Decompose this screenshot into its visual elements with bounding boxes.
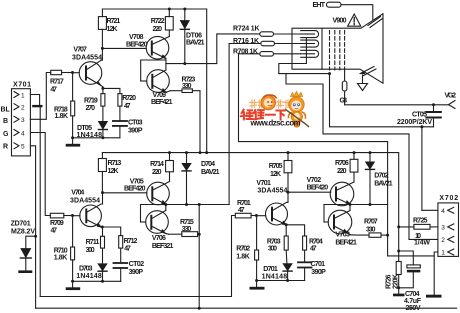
svg-text:3: 3 — [441, 225, 445, 232]
grid dash G1 — [329, 31, 331, 71]
svg-text:BL: BL — [1, 107, 11, 114]
top rail wire — [102, 9, 206, 153]
resistor R705 — [269, 153, 292, 193]
diode DT06 — [180, 9, 204, 64]
node R726 bottom — [397, 286, 400, 289]
svg-text:BEF321: BEF321 — [152, 243, 174, 250]
svg-text:C701: C701 — [311, 261, 326, 268]
heater wire a route — [330, 74, 434, 127]
svg-text:ZD701: ZD701 — [11, 221, 31, 228]
svg-text:V709: V709 — [153, 92, 167, 99]
svg-text:3DA4554: 3DA4554 — [72, 55, 102, 62]
cathode K2 — [301, 40, 319, 47]
node CT05 tap — [432, 103, 435, 106]
node DT06 top rail — [183, 8, 186, 11]
ground top amp — [66, 138, 81, 147]
svg-text:1.8K: 1.8K — [54, 255, 68, 262]
ground rail bottom — [36, 307, 457, 309]
resistor R717 — [50, 70, 64, 93]
svg-text:R726: R726 — [386, 274, 393, 289]
svg-text:220: 220 — [153, 26, 163, 33]
node output R715 line — [198, 203, 201, 206]
X701 pin 1 — [14, 92, 25, 100]
svg-text:CT02: CT02 — [129, 261, 145, 268]
cathode K1 — [301, 31, 319, 38]
wire emitter branch to R704 — [286, 225, 304, 236]
wire bottom node top amp — [73, 137, 120, 139]
node R726 top — [397, 250, 400, 253]
transistor V706 — [141, 205, 174, 250]
svg-text:V701: V701 — [256, 180, 271, 187]
svg-text:CT05: CT05 — [412, 112, 427, 119]
svg-text:R709: R709 — [50, 220, 64, 227]
svg-text:R717: R717 — [50, 79, 64, 86]
svg-text:D702: D702 — [374, 172, 389, 179]
svg-text:BAV21: BAV21 — [374, 180, 393, 187]
wire R708 to lower-right output — [239, 54, 388, 256]
svg-text:R713: R713 — [108, 160, 122, 167]
svg-text:4: 4 — [441, 208, 445, 215]
wire R716 to lower-left output — [228, 44, 230, 205]
transistor V707 — [72, 46, 103, 87]
resistor R711 — [86, 227, 105, 264]
node D703 bottom — [101, 280, 104, 283]
output wire top amp — [166, 34, 260, 64]
wire emitter branch to R712 — [102, 227, 120, 236]
ground lower-right amp — [250, 281, 265, 290]
svg-text:R710: R710 — [54, 248, 68, 255]
diode D704 — [182, 153, 220, 205]
node output D702 — [369, 203, 372, 206]
wire pin1 branch — [388, 255, 435, 257]
svg-text:V703: V703 — [335, 231, 350, 238]
ground bar at X701 — [32, 105, 42, 107]
capacitor CT03 — [113, 120, 143, 138]
wire pin2 — [409, 238, 438, 240]
svg-text:1.8K: 1.8K — [236, 253, 250, 260]
svg-text:47: 47 — [50, 87, 57, 94]
svg-text:BAV21: BAV21 — [186, 39, 205, 46]
svg-text:BAV21: BAV21 — [201, 169, 220, 176]
resistor R706 — [335, 153, 358, 182]
resistor R719 — [84, 88, 105, 121]
svg-text:BEF420: BEF420 — [307, 184, 329, 191]
wire pin5 R input down — [30, 146, 35, 308]
svg-text:R719: R719 — [84, 97, 98, 104]
node output junction V705 V706 — [164, 203, 167, 206]
capacitor CT05 — [397, 105, 441, 127]
svg-text:3DA4554: 3DA4554 — [70, 197, 100, 204]
warning triangle V900 — [333, 14, 361, 26]
resistor R725 — [399, 218, 438, 247]
node R725 tap — [397, 225, 400, 228]
anode contact — [368, 17, 383, 28]
wire ground bus down — [39, 107, 41, 296]
wire collector node to V704 — [102, 193, 104, 204]
watermark mascot — [286, 92, 309, 128]
zener ZD701 — [11, 221, 36, 274]
resistor R703 — [267, 225, 288, 264]
wire G bus bottom to R701 — [40, 216, 235, 297]
svg-text:R720: R720 — [122, 95, 136, 102]
svg-text:D701: D701 — [263, 266, 278, 273]
wire pin1 to ground bar — [30, 95, 39, 105]
transistor V708 — [126, 34, 169, 70]
wire collector node down to V707 — [101, 48, 103, 60]
wire pin1 — [434, 252, 438, 295]
wire pin4 G input down — [30, 133, 50, 216]
resistor R709 — [50, 213, 73, 234]
node CT05 line — [420, 125, 423, 128]
wire pin3 B input — [30, 73, 50, 120]
capacitor CT02 — [114, 261, 145, 281]
svg-text:EHT: EHT — [313, 2, 326, 9]
svg-text:V707: V707 — [73, 46, 87, 53]
wire CT05 drop — [421, 127, 423, 211]
svg-text:1N4148: 1N4148 — [262, 273, 288, 280]
node ground lower-right — [255, 279, 258, 282]
X702 pin 2 — [441, 236, 454, 244]
svg-text:2200P/2KV: 2200P/2KV — [397, 119, 432, 126]
svg-text:12K: 12K — [270, 171, 281, 178]
diode DT05 — [77, 121, 108, 138]
node R718 bottom — [71, 136, 74, 139]
svg-text:R712: R712 — [124, 238, 138, 245]
heater wire b — [286, 74, 409, 240]
svg-text:R715: R715 — [180, 219, 194, 226]
connector X701 — [12, 82, 32, 156]
svg-text:BEF420: BEF420 — [124, 186, 146, 193]
resistor R724 — [233, 26, 301, 37]
node rail D702 — [369, 151, 372, 154]
node V701 collector — [287, 191, 290, 194]
svg-text:1.8K: 1.8K — [55, 113, 69, 120]
heater wire inner — [279, 39, 307, 74]
grid dash G3 — [339, 31, 341, 71]
svg-text:R706: R706 — [335, 160, 349, 167]
svg-text:V708: V708 — [129, 34, 144, 41]
connector VG2 — [445, 93, 457, 109]
svg-text:1/4W: 1/4W — [414, 240, 430, 247]
svg-text:390P: 390P — [128, 127, 143, 134]
diode D702 — [366, 153, 393, 205]
X701 pin 2 — [14, 104, 25, 112]
node R715 right — [198, 233, 201, 236]
svg-text:R724 1K: R724 1K — [233, 26, 260, 33]
svg-text:www.dzsc.com: www.dzsc.com — [250, 119, 301, 128]
svg-text:V702: V702 — [307, 177, 322, 184]
svg-text:R703: R703 — [267, 238, 281, 245]
node DT05 bottom — [101, 136, 104, 139]
aquadag ground — [358, 75, 368, 91]
node rail R723 — [199, 151, 202, 154]
svg-text:12K: 12K — [107, 26, 118, 33]
node V707 emitter — [101, 87, 104, 90]
svg-text:2: 2 — [21, 105, 25, 112]
resistor R715 — [169, 219, 200, 237]
resistor R707 — [351, 219, 388, 238]
svg-text:R725: R725 — [413, 218, 428, 225]
svg-text:270: 270 — [86, 105, 96, 112]
ground R726 — [393, 288, 405, 297]
watermark faded glyphs — [250, 100, 292, 109]
transistor V701 — [256, 180, 288, 225]
wire base V702 — [288, 191, 331, 193]
wire base V708 — [102, 47, 146, 49]
watermark badge — [261, 95, 276, 110]
node R707 right — [386, 234, 389, 237]
node output DT06 — [183, 62, 186, 65]
svg-text:VG2: VG2 — [445, 93, 457, 100]
wire bottom node lower-left amp — [73, 280, 121, 282]
ground lower-left amp — [66, 281, 81, 290]
node rail D704 — [185, 151, 188, 154]
svg-text:G: G — [3, 131, 9, 138]
svg-text:47: 47 — [51, 228, 58, 235]
wire base V705 — [103, 192, 147, 194]
node rail R714 — [168, 151, 171, 154]
grid dash G4 — [344, 31, 346, 71]
svg-text:R707: R707 — [364, 219, 378, 226]
resistor R723 — [171, 76, 201, 152]
svg-text:R705: R705 — [269, 163, 283, 170]
svg-text:R701: R701 — [237, 200, 251, 207]
svg-text:BEF420: BEF420 — [126, 42, 148, 49]
svg-text:D703: D703 — [79, 266, 93, 273]
transistor V709 — [141, 60, 173, 106]
output wire lower-left amp — [166, 204, 229, 206]
transistor V703 — [324, 205, 357, 247]
svg-text:G3: G3 — [340, 97, 348, 104]
svg-text:4: 4 — [21, 130, 25, 137]
svg-text:MZ8.2V: MZ8.2V — [11, 229, 35, 236]
X701 pin 3 — [14, 116, 25, 124]
svg-text:390P: 390P — [311, 269, 326, 276]
node base V707 — [71, 71, 74, 74]
node rail top feed — [205, 151, 208, 154]
node V704 emitter — [101, 226, 104, 229]
svg-text:4.7uF: 4.7uF — [404, 298, 422, 305]
capacitor C704 — [399, 251, 422, 312]
X702 pin 1 — [441, 249, 454, 257]
svg-text:R704: R704 — [309, 238, 323, 245]
svg-text:R708 1K: R708 1K — [233, 49, 258, 56]
svg-text:390P: 390P — [129, 269, 144, 276]
node rail R706 — [353, 151, 356, 154]
node V704 collector — [101, 191, 104, 194]
capacitor C701 — [298, 261, 326, 280]
svg-text:R723: R723 — [182, 76, 196, 83]
resistor R712 — [119, 236, 138, 263]
svg-text:X702: X702 — [439, 195, 458, 202]
wire base into V707 — [73, 72, 80, 74]
node rail R705 — [287, 151, 290, 154]
heater wire a — [279, 73, 330, 75]
node ground rail R715 — [198, 307, 201, 310]
svg-text:V706: V706 — [152, 235, 166, 242]
resistor R702 — [236, 216, 258, 281]
svg-text:V705: V705 — [130, 178, 144, 185]
svg-text:R722: R722 — [151, 18, 165, 25]
svg-text:R721: R721 — [107, 18, 121, 25]
svg-text:47: 47 — [124, 246, 131, 253]
svg-text:300: 300 — [86, 247, 95, 254]
resistor R713 — [98, 153, 121, 193]
resistor R718 — [54, 73, 75, 138]
wire emitter branch to R720 — [103, 88, 120, 93]
svg-text:D704: D704 — [201, 161, 215, 168]
resistor R701 — [235, 200, 256, 218]
svg-text:1N4148: 1N4148 — [76, 273, 102, 280]
svg-text:47: 47 — [238, 207, 245, 214]
node output junction V702 V703 — [349, 203, 352, 206]
resistor R726 — [386, 227, 402, 289]
svg-text:C704: C704 — [405, 291, 420, 298]
grid dash G2 — [334, 31, 336, 71]
electrode G3 — [340, 70, 348, 105]
transistor V702 — [307, 177, 354, 211]
resistor R704 — [303, 236, 323, 262]
X702 pin 3 — [441, 224, 454, 232]
resistor R708 — [233, 49, 301, 57]
resistor R716 — [229, 38, 301, 46]
svg-text:300: 300 — [268, 246, 277, 253]
svg-text:V900: V900 — [333, 17, 347, 24]
resistor R710 — [54, 216, 75, 282]
wire bottom node lower-right amp — [257, 280, 305, 282]
CRT bell outline — [322, 14, 383, 84]
output wire lower-right amp — [324, 204, 388, 206]
transistor V704 — [70, 190, 103, 227]
svg-text:X701: X701 — [13, 82, 31, 89]
svg-text:47: 47 — [310, 246, 317, 253]
resistor R722 — [151, 9, 173, 37]
connector X702 — [438, 195, 459, 256]
node V707 collector / V708 base — [101, 47, 104, 50]
svg-text:220: 220 — [337, 168, 347, 175]
supply rail lower — [102, 153, 398, 227]
transistor V705 — [124, 178, 170, 210]
svg-text:12K: 12K — [108, 168, 119, 175]
node ground lower-left — [71, 280, 74, 283]
svg-text:R702: R702 — [236, 245, 250, 252]
wire pin4 — [422, 209, 438, 211]
svg-text:BEF421: BEF421 — [151, 99, 173, 106]
node heater G1 — [328, 72, 331, 75]
svg-text:1: 1 — [441, 250, 445, 257]
svg-text:47: 47 — [124, 103, 131, 110]
node output D704 — [185, 203, 188, 206]
svg-text:220: 220 — [152, 169, 162, 176]
svg-text:R: R — [3, 144, 8, 151]
ground X702 — [426, 295, 442, 298]
wire R717 to base node — [62, 72, 73, 74]
screen arrowhead — [361, 72, 365, 74]
X701 pin 4 — [14, 130, 25, 138]
wire collector node to V701 — [287, 192, 289, 202]
node base V704 — [71, 214, 74, 217]
X701 pin 5 — [14, 143, 25, 151]
diode D703 — [76, 264, 107, 282]
X702 pin 4 — [441, 207, 454, 215]
svg-text:1: 1 — [21, 92, 25, 99]
resistor R721 — [98, 17, 120, 49]
CRT neck box — [292, 28, 322, 69]
diode D701 — [262, 264, 293, 281]
svg-text:5: 5 — [21, 144, 25, 151]
node base V701 — [255, 214, 258, 217]
screen electron arrow — [361, 67, 377, 77]
resistor R714 — [150, 153, 173, 182]
svg-text:R714: R714 — [150, 161, 164, 168]
wire VG2 — [345, 104, 449, 106]
svg-text:CT03: CT03 — [128, 120, 143, 127]
svg-text:R711: R711 — [86, 239, 100, 246]
wire base into V701 — [256, 215, 265, 217]
watermark red text — [241, 110, 285, 120]
svg-text:3DA4554: 3DA4554 — [257, 187, 287, 194]
EHT terminal — [313, 2, 373, 19]
svg-text:B: B — [3, 118, 8, 125]
cathode K3 — [301, 50, 319, 57]
svg-text:2: 2 — [441, 237, 445, 244]
node R722 top rail — [168, 8, 171, 11]
resistor R720 — [118, 94, 136, 121]
svg-text:V704: V704 — [71, 190, 84, 197]
node ZD701 tap — [34, 235, 37, 238]
svg-text:BEF421: BEF421 — [335, 239, 357, 246]
wire R715 to ground rail — [198, 205, 200, 309]
node V701 emitter — [285, 223, 288, 226]
node D701 bottom — [286, 279, 289, 282]
svg-text:3: 3 — [21, 117, 25, 124]
wire base into V704 — [73, 215, 81, 217]
